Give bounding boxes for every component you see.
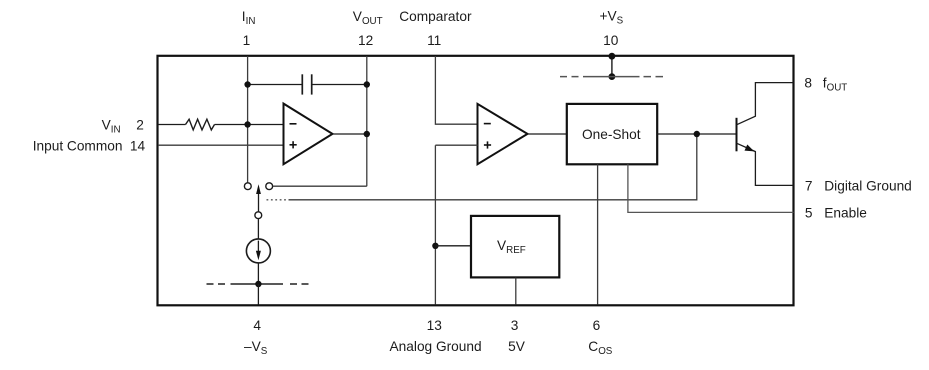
junction dot pin10 on +Vs rail <box>609 73 616 80</box>
comparator non-inverting input wire from analog ground line <box>435 144 477 146</box>
junction dot on -Vs rail <box>255 281 261 287</box>
svg-text:14: 14 <box>130 138 146 153</box>
svg-text:2: 2 <box>136 117 144 132</box>
transistor collector <box>737 83 794 125</box>
enable wire from one-shot (pin 5) <box>628 164 794 212</box>
svg-text:6: 6 <box>593 318 601 333</box>
V_IN input wire (pin 2) <box>158 124 186 126</box>
svg-text:4: 4 <box>253 318 261 333</box>
svg-text:One-Shot: One-Shot <box>582 127 641 142</box>
svg-text:Enable: Enable <box>824 205 867 220</box>
resistor R (input) <box>186 119 215 130</box>
outer IC boundary box <box>158 56 794 305</box>
junction dot cap right / pin12 line <box>364 81 370 87</box>
wire switch pole to current source <box>257 219 259 239</box>
comparator output wire to one-shot <box>528 133 567 135</box>
op-amp plus sign <box>290 141 297 148</box>
svg-text:Input Common: Input Common <box>33 138 123 153</box>
pin 11 vertical wire (Comparator input) <box>435 56 477 124</box>
comparator U2 <box>478 104 528 164</box>
switch left contact (open circle, to integrator input) <box>244 183 251 190</box>
pin 3 wire (5V out of Vref) <box>515 278 517 305</box>
svg-text:1: 1 <box>243 33 251 48</box>
Vref block <box>471 216 559 278</box>
svg-text:10: 10 <box>603 33 619 48</box>
junction dot one-shot output <box>694 131 700 137</box>
One-Shot block <box>567 104 657 164</box>
switch arm with arrow <box>258 193 260 212</box>
svg-text:Digital Ground: Digital Ground <box>824 179 912 194</box>
svg-text:+VS: +VS <box>600 8 624 26</box>
switch right contact (open circle, to V_OUT) <box>266 183 273 190</box>
junction dot pin10 on border <box>609 53 616 60</box>
svg-text:VOUT: VOUT <box>353 9 383 27</box>
junction dot cap left / pin1 line <box>244 81 250 87</box>
svg-text:8: 8 <box>804 75 812 90</box>
op-amp minus sign <box>290 123 297 125</box>
current source (1 mA) <box>246 239 270 263</box>
svg-text:–VS: –VS <box>244 339 268 357</box>
integration capacitor wires <box>248 84 303 86</box>
+Vs supply rail (dashed ends) <box>560 76 665 78</box>
Input Common wire (pin 14) to op-amp non-inverting input <box>158 144 284 146</box>
junction dot op-amp output / pin12 line <box>364 131 370 137</box>
comparator minus sign <box>484 123 491 125</box>
svg-text:13: 13 <box>427 318 443 333</box>
pin 1 vertical wire (I_IN) <box>247 56 249 183</box>
svg-text:VREF: VREF <box>497 238 526 256</box>
transistor emitter with arrow <box>737 143 794 185</box>
-Vs supply rail (dashed ends) <box>207 283 312 285</box>
wire resistor to op-amp inverting input <box>215 124 284 126</box>
svg-text:VIN: VIN <box>102 117 121 135</box>
svg-text:12: 12 <box>358 33 373 48</box>
op-amp output wire <box>333 133 367 135</box>
svg-text:fOUT: fOUT <box>823 75 848 93</box>
comparator plus sign <box>484 141 491 148</box>
junction dot Vref tap <box>432 243 438 249</box>
svg-text:7: 7 <box>805 179 813 194</box>
svg-text:IIN: IIN <box>242 9 256 27</box>
wire junction to Vref box <box>435 245 471 247</box>
switch arm pole (open circle) <box>255 212 262 219</box>
pin 12 vertical wire (V_OUT) <box>366 56 368 186</box>
one-shot output wire to transistor base <box>657 133 736 135</box>
svg-text:5: 5 <box>805 205 813 220</box>
junction dot at pin1 line / Vin wire <box>244 121 250 127</box>
pin 6 wire (C_OS) <box>597 164 599 304</box>
wire switch right contact to pin12 line <box>273 185 367 187</box>
svg-text:3: 3 <box>511 318 519 333</box>
svg-text:Comparator: Comparator <box>399 9 472 24</box>
svg-text:COS: COS <box>588 339 613 357</box>
wire current source to -Vs rail <box>257 263 259 284</box>
switch control wire from one-shot <box>289 134 697 200</box>
capacitor C (integrator) plates <box>301 74 303 94</box>
pin 10 vertical stub (+Vs) <box>611 56 613 77</box>
svg-text:Analog Ground: Analog Ground <box>390 339 482 354</box>
pin 4 stub wire (-Vs) <box>257 284 259 305</box>
op-amp U1 (integrator) <box>284 104 333 165</box>
svg-text:5V: 5V <box>508 339 526 354</box>
svg-text:11: 11 <box>427 33 441 48</box>
transistor Q1 base bar <box>736 118 738 152</box>
pin 13 vertical wire (Analog Ground) <box>434 145 436 304</box>
switch control line (dotted near switch) <box>267 199 289 201</box>
